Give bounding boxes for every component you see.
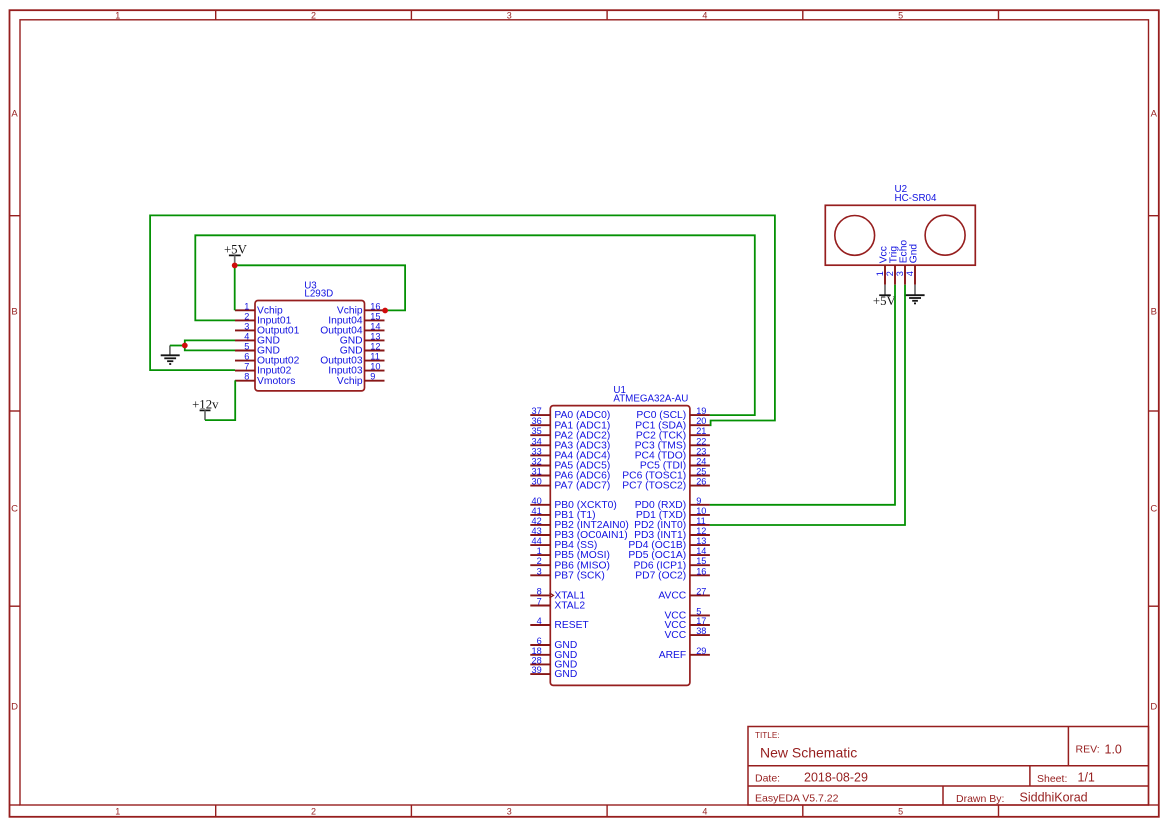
U1 pin 29 AREF (right) — [659, 646, 710, 661]
IC U3 L293D body — [255, 301, 365, 391]
svg-text:AVCC: AVCC — [658, 591, 686, 602]
U3 pin 2 Input01 (left) — [235, 311, 292, 326]
svg-text:A: A — [1151, 108, 1158, 119]
U1 pin 41 PB1 (T1) (left) — [530, 506, 595, 521]
svg-text:B: B — [1151, 306, 1157, 317]
U1 pin 25 PC6 (TOSC1) (right) — [622, 467, 710, 482]
U3 pin 5 GND (left) — [235, 342, 280, 357]
svg-text:41: 41 — [531, 506, 541, 516]
svg-text:PC7 (TOSC2): PC7 (TOSC2) — [622, 481, 686, 492]
svg-text:PB7 (SCK): PB7 (SCK) — [554, 570, 604, 581]
svg-text:B: B — [11, 306, 17, 317]
U1 pin 17 VCC (right) — [664, 616, 709, 631]
svg-text:40: 40 — [531, 496, 541, 506]
svg-text:4: 4 — [702, 807, 707, 817]
svg-text:37: 37 — [531, 406, 541, 416]
svg-text:34: 34 — [531, 436, 541, 446]
U3 pin 1 Vchip (left) — [235, 301, 283, 316]
U3 pin 14 Output04 (right) — [320, 321, 384, 336]
wire U2 Echo down to U1 PD2 (INT0) — [710, 285, 905, 525]
svg-text:Sheet:: Sheet: — [1037, 773, 1067, 785]
U1 pin 15 PD6 (ICP1) (right) — [634, 556, 710, 571]
svg-text:1.0: 1.0 — [1105, 742, 1122, 756]
U3 pin 12 GND (right) — [340, 342, 385, 357]
svg-text:ATMEGA32A-AU: ATMEGA32A-AU — [613, 393, 688, 404]
svg-text:30: 30 — [531, 477, 541, 487]
svg-text:16: 16 — [696, 566, 706, 576]
U1 pin 28 GND (left) — [530, 655, 577, 670]
svg-text:8: 8 — [537, 586, 542, 596]
svg-text:31: 31 — [531, 467, 541, 477]
junction dot at U3 GND node — [182, 343, 188, 349]
svg-text:12: 12 — [696, 526, 706, 536]
svg-text:3: 3 — [507, 10, 512, 20]
svg-text:10: 10 — [370, 362, 380, 372]
U1 pin 18 GND (left) — [530, 646, 577, 661]
svg-text:GND: GND — [554, 669, 577, 680]
U1 pin 3 PB7 (SCK) (left) — [530, 566, 604, 581]
svg-text:8: 8 — [244, 372, 249, 382]
svg-text:3: 3 — [895, 271, 905, 276]
U1 designator and value labels — [613, 385, 688, 404]
U3 pin 10 Input03 (right) — [328, 362, 384, 377]
svg-text:11: 11 — [696, 516, 706, 526]
svg-text:Gnd: Gnd — [909, 244, 920, 264]
svg-text:2: 2 — [311, 807, 316, 817]
U2 pin 1 Vcc — [875, 246, 890, 285]
svg-text:6: 6 — [244, 352, 249, 362]
svg-text:PD7 (OC2): PD7 (OC2) — [635, 570, 686, 581]
svg-text:REV:: REV: — [1076, 743, 1100, 755]
U1 pin 21 PC2 (TCK) (right) — [636, 426, 710, 441]
svg-text:42: 42 — [531, 516, 541, 526]
svg-text:5: 5 — [244, 342, 249, 352]
U1 pin 2 PB6 (MISO) (left) — [530, 556, 610, 571]
U3 pin 15 Input04 (right) — [328, 311, 384, 326]
svg-text:36: 36 — [531, 416, 541, 426]
svg-text:9: 9 — [696, 496, 701, 506]
U3 pin 9 Vchip (right) — [337, 372, 385, 387]
svg-text:13: 13 — [370, 331, 380, 341]
svg-text:14: 14 — [370, 321, 380, 331]
junction dot at U3 pin 16 — [382, 308, 388, 314]
svg-text:4: 4 — [905, 271, 915, 276]
U2 right transducer circle — [925, 215, 965, 255]
svg-text:25: 25 — [696, 467, 706, 477]
U1 pin 40 PB0 (XCKT0) (left) — [530, 496, 616, 511]
svg-text:43: 43 — [531, 526, 541, 536]
U1 pin 5 VCC (right) — [664, 606, 709, 621]
power flag +5V (net +5V) under U2 Vcc — [873, 285, 897, 308]
svg-text:11: 11 — [370, 352, 380, 362]
svg-text:Drawn By:: Drawn By: — [956, 793, 1004, 805]
U1 pin 34 PA3 (ADC3) (left) — [530, 436, 610, 451]
svg-text:Date:: Date: — [755, 773, 780, 785]
svg-text:2: 2 — [244, 311, 249, 321]
svg-text:39: 39 — [531, 665, 541, 675]
svg-text:32: 32 — [531, 457, 541, 467]
U1 pin 8 XTAL1 (left) — [530, 586, 585, 601]
svg-text:+12v: +12v — [192, 398, 219, 412]
U3 pin 6 Output02 (left) — [235, 352, 300, 367]
svg-text:44: 44 — [531, 536, 541, 546]
svg-text:2: 2 — [885, 271, 895, 276]
svg-text:3: 3 — [507, 807, 512, 817]
U3 pin 16 Vchip (right) — [337, 301, 385, 316]
U3 pin 8 Vmotors (left) — [235, 372, 295, 387]
svg-text:22: 22 — [696, 436, 706, 446]
U1 pin 30 PA7 (ADC7) (left) — [530, 477, 610, 492]
U1 pin 12 PD3 (INT1) (right) — [634, 526, 710, 541]
U1 pin 13 PD4 (OC1B) (right) — [628, 536, 709, 551]
power flag +5V (net +5V) near U3 — [224, 243, 248, 263]
svg-text:33: 33 — [531, 446, 541, 456]
svg-text:C: C — [11, 503, 18, 514]
wire U3 pin 7 Input02 to U1 PC1 (SDA) — [150, 215, 775, 425]
svg-text:2: 2 — [537, 556, 542, 566]
U2 pin 3 Echo — [895, 240, 910, 285]
U3 pin 3 Output01 (left) — [235, 321, 300, 336]
svg-text:D: D — [11, 701, 18, 712]
svg-text:1/1: 1/1 — [1078, 771, 1095, 785]
svg-text:29: 29 — [696, 646, 706, 656]
svg-text:6: 6 — [537, 636, 542, 646]
ground symbol under U2 Gnd pin — [905, 285, 924, 304]
IC U1 ATMEGA32A-AU body — [550, 406, 690, 686]
svg-text:D: D — [1150, 701, 1157, 712]
svg-text:5: 5 — [696, 606, 701, 616]
svg-text:+5V: +5V — [873, 294, 897, 308]
svg-text:10: 10 — [696, 506, 706, 516]
wire net +5V: flag down to U3 pin 1 Vchip — [234, 265, 236, 310]
U1 pin 38 VCC (right) — [664, 626, 709, 641]
svg-text:35: 35 — [531, 426, 541, 436]
U3 pin 4 GND (left) — [235, 331, 280, 346]
svg-text:5: 5 — [898, 807, 903, 817]
wire U2 Trig down to U1 PD0 (RXD) — [710, 285, 895, 505]
svg-text:1: 1 — [244, 301, 249, 311]
U1 pin 42 PB2 (INT2AIN0) (left) — [530, 516, 628, 531]
U1 pin 39 GND (left) — [530, 665, 577, 680]
svg-text:2018-08-29: 2018-08-29 — [804, 771, 868, 785]
svg-text:4: 4 — [702, 10, 707, 20]
svg-text:7: 7 — [537, 597, 542, 607]
svg-text:A: A — [11, 108, 18, 119]
svg-text:Vmotors: Vmotors — [257, 376, 295, 387]
svg-text:20: 20 — [696, 416, 706, 426]
svg-text:3: 3 — [244, 321, 249, 331]
svg-text:L293D: L293D — [304, 289, 333, 300]
svg-text:1: 1 — [115, 807, 120, 817]
svg-text:38: 38 — [696, 626, 706, 636]
U1 pin 44 PB4 (SS) (left) — [530, 536, 597, 551]
ground symbol near U3 GND pins — [161, 346, 180, 365]
wire U3 pin 8 Vmotors down to +12v flag — [205, 380, 235, 420]
svg-text:21: 21 — [696, 426, 706, 436]
svg-text:16: 16 — [370, 301, 380, 311]
U1 pin 36 PA1 (ADC1) (left) — [530, 416, 610, 431]
U3 pin 13 GND (right) — [340, 331, 385, 346]
U1 pin 19 PC0 (SCL) (right) — [636, 406, 709, 421]
svg-text:15: 15 — [370, 311, 380, 321]
svg-text:AREF: AREF — [659, 650, 686, 661]
junction dot at +5V node — [232, 263, 238, 269]
U1 XTAL1 clock input arrow — [549, 593, 553, 598]
U1 pin 10 PD1 (TXD) (right) — [636, 506, 710, 521]
svg-text:9: 9 — [370, 372, 375, 382]
svg-text:SiddhiKorad: SiddhiKorad — [1020, 791, 1088, 805]
U1 pin 20 PC1 (SDA) (right) — [635, 416, 710, 431]
U1 pin 32 PA5 (ADC5) (left) — [530, 457, 610, 472]
svg-text:C: C — [1150, 503, 1157, 514]
svg-text:26: 26 — [696, 477, 706, 487]
svg-text:4: 4 — [537, 616, 542, 626]
svg-text:2: 2 — [311, 10, 316, 20]
svg-text:23: 23 — [696, 446, 706, 456]
U3 pin 11 Output03 (right) — [320, 352, 384, 367]
U3 pin 7 Input02 (left) — [235, 362, 292, 377]
U1 pin 11 PD2 (INT0) (right) — [634, 516, 710, 531]
svg-text:VCC: VCC — [664, 630, 686, 641]
svg-text:3: 3 — [537, 566, 542, 576]
U1 pin 31 PA6 (ADC6) (left) — [530, 467, 610, 482]
IC U2 HC-SR04 body — [825, 205, 975, 265]
U1 pin 16 PD7 (OC2) (right) — [635, 566, 710, 581]
svg-text:18: 18 — [531, 646, 541, 656]
svg-text:27: 27 — [696, 586, 706, 596]
U1 pin 22 PC3 (TMS) (right) — [635, 436, 710, 451]
title block — [748, 727, 1149, 806]
U1 pin 24 PC5 (TDI) (right) — [640, 457, 710, 472]
U3 designator and value labels — [304, 281, 333, 300]
U1 pin 9 PD0 (RXD) (right) — [635, 496, 710, 511]
U1 pin 43 PB3 (OC0AIN1) (left) — [530, 526, 627, 541]
svg-text:Vchip: Vchip — [337, 376, 363, 387]
U2 left transducer circle — [835, 216, 875, 256]
svg-text:PA7 (ADC7): PA7 (ADC7) — [554, 481, 610, 492]
svg-text:XTAL2: XTAL2 — [554, 601, 585, 612]
svg-text:15: 15 — [696, 556, 706, 566]
U2 pin 2 Trig — [885, 246, 900, 285]
U1 pin 23 PC4 (TDO) (right) — [635, 446, 710, 461]
U1 pin 35 PA2 (ADC2) (left) — [530, 426, 610, 441]
svg-text:HC-SR04: HC-SR04 — [895, 193, 937, 204]
U1 pin 37 PA0 (ADC0) (left) — [530, 406, 610, 421]
svg-text:1: 1 — [537, 546, 542, 556]
svg-text:4: 4 — [244, 331, 249, 341]
svg-text:TITLE:: TITLE: — [755, 731, 780, 740]
svg-text:New Schematic: New Schematic — [760, 745, 857, 761]
U1 pin 33 PA4 (ADC4) (left) — [530, 446, 610, 461]
svg-text:5: 5 — [898, 10, 903, 20]
wire U3 pin 2 Input01 to U1 PC0 (SCL) — [195, 235, 755, 415]
U1 pin 26 PC7 (TOSC2) (right) — [622, 477, 710, 492]
svg-text:1: 1 — [875, 271, 885, 276]
svg-text:RESET: RESET — [554, 620, 589, 631]
svg-text:28: 28 — [531, 655, 541, 665]
wire net +5V: flag right and down to U3 pin 16 Vchip — [235, 265, 405, 310]
svg-text:EasyEDA V5.7.22: EasyEDA V5.7.22 — [755, 793, 839, 805]
svg-text:19: 19 — [696, 406, 706, 416]
U2 designator and value labels — [895, 184, 937, 204]
U2 pin 4 Gnd — [905, 244, 920, 285]
U1 pin 6 GND (left) — [530, 636, 577, 651]
svg-text:14: 14 — [696, 546, 706, 556]
U1 pin 14 PD5 (OC1A) (right) — [628, 546, 709, 561]
svg-text:1: 1 — [115, 10, 120, 20]
svg-text:7: 7 — [244, 362, 249, 372]
svg-text:24: 24 — [696, 457, 706, 467]
U1 pin 4 RESET (left) — [530, 616, 589, 631]
U1 pin 7 XTAL2 (left) — [530, 597, 585, 612]
wire U3 GND pins 4,5 loop to ground node — [170, 340, 235, 350]
U1 pin 1 PB5 (MOSI) (left) — [530, 546, 610, 561]
U1 pin 27 AVCC (right) — [658, 586, 710, 601]
svg-text:13: 13 — [696, 536, 706, 546]
power flag +12v (net +12v) near U3 Vmotors — [192, 398, 219, 421]
svg-text:12: 12 — [370, 342, 380, 352]
svg-text:17: 17 — [696, 616, 706, 626]
